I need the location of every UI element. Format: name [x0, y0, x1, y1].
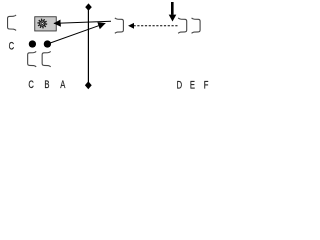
svg-text:E: E [190, 79, 195, 90]
svg-text:F: F [204, 79, 209, 90]
dashed edge: right bracket to mid bracket [128, 25, 177, 27]
vertical edge [87, 10, 89, 83]
svg-text:C: C [28, 79, 34, 90]
small bracket under dot C [28, 51, 37, 66]
svg-text:C: C [9, 41, 15, 52]
label A [60, 79, 66, 90]
gear icon [37, 19, 47, 29]
svg-text:B: B [44, 79, 49, 90]
small bracket under dot B [42, 51, 51, 66]
label B [44, 79, 49, 90]
bracket node top-left "[" [8, 15, 17, 30]
diamond bottom [85, 81, 92, 89]
bracket node right 1 "]" [178, 18, 187, 33]
label C (bottom) [28, 79, 34, 90]
bracket node right 2 "]" [192, 18, 201, 33]
thick down arrow [171, 2, 174, 15]
edge: mid bracket to gear box (solid arrow pointing into box) [54, 21, 111, 23]
dot node C (filled circle) [29, 40, 36, 47]
label F [204, 79, 209, 90]
svg-text:A: A [60, 79, 66, 90]
label D [177, 79, 183, 90]
dot node B (filled circle) [44, 40, 51, 47]
label E [190, 79, 195, 90]
label C (left) [9, 41, 15, 52]
diagonal edge: dot B to mid bracket [47, 23, 105, 44]
bracket node mid "]" [115, 18, 124, 33]
diamond top [85, 3, 92, 10]
gear box [35, 17, 57, 31]
svg-text:D: D [177, 79, 183, 90]
